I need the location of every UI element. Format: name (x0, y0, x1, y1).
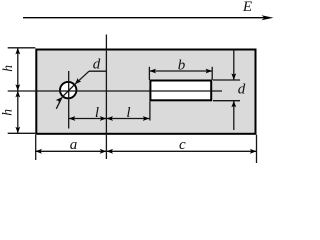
dimension line b (149, 70, 212, 72)
leader for hole d (73, 57, 106, 86)
extension line slot bottom (213, 100, 240, 102)
dimension tail below d (233, 101, 235, 130)
arrowheads at l junction (100, 116, 107, 121)
svg-text:d: d (238, 81, 246, 97)
arrowhead d bottom (231, 101, 236, 108)
l dimensions (69, 101, 150, 121)
arrowheads at h junction (15, 84, 20, 91)
field arrow E (23, 0, 274, 20)
dimension tail above d (233, 51, 235, 80)
extension line below plate right corner (256, 135, 258, 163)
arrowhead a left (35, 149, 42, 154)
plate (36, 50, 255, 134)
arrowhead b right (206, 69, 213, 74)
extension line below plate left corner (35, 135, 37, 160)
svg-text:l: l (126, 105, 130, 121)
leader tail lower-left (56, 97, 62, 109)
long vertical line at x=106 (105, 35, 107, 160)
d dimension of slot (213, 51, 246, 131)
arrowhead c right (250, 149, 257, 154)
svg-text:h: h (0, 65, 15, 72)
arrowhead of E arrow (262, 15, 274, 20)
a and c dimensions (35, 135, 256, 163)
arrowheads at a/c junction (100, 149, 107, 154)
svg-text:d: d (93, 57, 101, 73)
svg-text:E: E (242, 0, 252, 15)
svg-text:l: l (95, 105, 99, 121)
arrowhead b left (149, 69, 156, 74)
hole (60, 82, 76, 98)
lower-left arrow at hole (56, 95, 64, 108)
extension line slot top (213, 79, 240, 81)
extension line below slot left edge (149, 101, 151, 120)
leader horizontal segment (89, 70, 106, 72)
extension line left of b (148, 67, 150, 80)
arrowhead at hole lower-left edge (56, 95, 64, 103)
tick at plate top edge (8, 47, 36, 49)
extension line right of b (211, 67, 213, 80)
b dimension (149, 58, 212, 81)
h dimensions (0, 48, 35, 134)
svg-text:b: b (178, 58, 186, 74)
diagonal diameter line inside hole (62, 85, 74, 97)
arrowhead l far right (143, 116, 150, 121)
dimension line a+c (35, 150, 256, 152)
leader diagonal segment (75, 71, 89, 84)
vertical center line of hole (68, 71, 70, 129)
center line across slot interior (151, 90, 211, 92)
dimension line h+h (17, 48, 19, 134)
arrowhead l far left (69, 116, 76, 121)
slot (150, 81, 211, 101)
svg-text:h: h (0, 109, 15, 116)
svg-text:a: a (70, 137, 78, 153)
dimension line l+l (69, 118, 150, 120)
arrowhead at hole upper-right edge (73, 78, 81, 86)
arrowhead d top (231, 73, 236, 80)
horizontal center line through hole and slot (8, 90, 222, 92)
tick at plate bottom edge (8, 132, 36, 134)
arrowhead h top (15, 48, 20, 55)
wire: E arrow shaft (23, 17, 267, 19)
svg-text:c: c (179, 137, 186, 153)
arrowhead h bottom (15, 127, 20, 134)
